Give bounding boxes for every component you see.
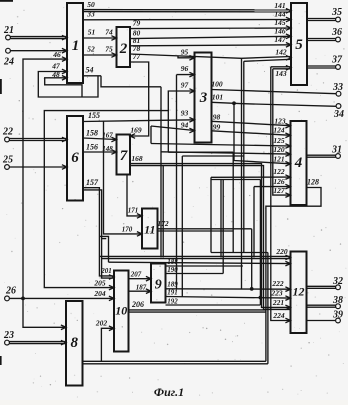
- wire 188: [166, 258, 243, 266]
- svg-text:21: 21: [3, 25, 14, 36]
- wire 192: [166, 297, 261, 305]
- svg-text:158: 158: [86, 129, 98, 138]
- block 7: [117, 135, 131, 175]
- svg-text:202: 202: [95, 319, 108, 328]
- wire 252 cross: [211, 252, 268, 254]
- wire 51-74: [83, 28, 117, 41]
- vertical 182: [181, 156, 183, 297]
- svg-text:22: 22: [2, 127, 13, 138]
- svg-text:207: 207: [130, 270, 142, 278]
- wire 207: [129, 270, 152, 281]
- wire chain to 205: [44, 111, 168, 290]
- block 4: [291, 121, 307, 205]
- svg-text:2: 2: [119, 41, 128, 57]
- wire 77-169: [130, 52, 149, 138]
- svg-text:124: 124: [273, 126, 285, 135]
- vertical from 54 branch: [160, 87, 162, 258]
- svg-text:204: 204: [93, 289, 106, 298]
- wire 32 output: [307, 286, 336, 288]
- block 3: [195, 53, 212, 143]
- wire 220 bus: [99, 247, 290, 260]
- wire 81-147: [130, 35, 291, 47]
- vertical bus at 163: [162, 166, 164, 258]
- vertical 251 to 222: [251, 229, 253, 290]
- svg-text:11: 11: [144, 223, 155, 237]
- wire 101 to terminal 34: [212, 93, 337, 107]
- svg-text:224: 224: [272, 311, 285, 320]
- wire 38 output: [307, 305, 336, 307]
- svg-text:31: 31: [331, 145, 342, 156]
- wire 142 vertical pair: [242, 58, 244, 289]
- wire 80-146: [130, 27, 291, 39]
- wire 26 to node: [10, 289, 115, 301]
- vertical 122 left: [210, 177, 212, 252]
- svg-text:51: 51: [88, 28, 96, 37]
- wire 48 branch: [45, 70, 82, 97]
- vertical 94-125 feed: [150, 126, 152, 144]
- wire bottom bus: [83, 361, 268, 364]
- svg-text:8: 8: [71, 335, 79, 351]
- wire 36 output: [307, 39, 336, 41]
- svg-text:Фиг.1: Фиг.1: [154, 385, 184, 399]
- svg-text:121: 121: [273, 155, 284, 164]
- svg-text:98: 98: [213, 113, 221, 122]
- svg-text:7: 7: [120, 148, 128, 164]
- svg-text:221: 221: [272, 298, 284, 307]
- svg-text:205: 205: [93, 279, 106, 288]
- svg-text:188: 188: [167, 258, 178, 266]
- svg-text:95: 95: [181, 48, 189, 57]
- node on wire 101: [232, 101, 236, 105]
- terminal 36: [331, 27, 342, 42]
- wire 94: [151, 121, 195, 133]
- svg-text:25: 25: [2, 155, 13, 166]
- svg-text:142: 142: [275, 48, 287, 57]
- wire 52-75: [83, 45, 117, 58]
- svg-text:93: 93: [181, 109, 189, 118]
- svg-text:38: 38: [332, 295, 343, 306]
- wire 46 from node 26: [23, 50, 67, 298]
- vertical 233: [232, 152, 234, 252]
- terminal 37: [331, 55, 343, 70]
- svg-text:191: 191: [167, 289, 178, 297]
- svg-text:23: 23: [3, 330, 14, 341]
- block 12: [291, 252, 307, 334]
- wire 168 bus: [130, 154, 291, 310]
- svg-text:74: 74: [105, 28, 113, 37]
- svg-text:48: 48: [51, 70, 60, 79]
- svg-text:125: 125: [273, 136, 285, 145]
- node on 223: [259, 296, 263, 300]
- wire 202: [95, 319, 114, 362]
- terminal 24: [3, 48, 14, 67]
- svg-text:26: 26: [5, 286, 16, 297]
- terminal 39: [332, 310, 343, 323]
- wire 187: [129, 283, 152, 293]
- svg-text:201: 201: [100, 267, 112, 275]
- svg-text:155: 155: [88, 111, 100, 120]
- wire 172 pair: [157, 219, 251, 231]
- svg-text:50: 50: [87, 0, 95, 9]
- svg-text:101: 101: [212, 93, 223, 102]
- wire 31 output: [307, 155, 336, 157]
- svg-text:6: 6: [71, 150, 79, 166]
- svg-text:5: 5: [295, 37, 303, 53]
- svg-text:171: 171: [128, 207, 139, 215]
- svg-text:100: 100: [211, 80, 223, 89]
- terminal 32: [332, 276, 343, 290]
- terminal 38: [332, 295, 343, 309]
- block 5: [291, 3, 307, 85]
- wire 23 input: [10, 340, 67, 345]
- wire 24 input: [11, 48, 68, 53]
- svg-text:147: 147: [274, 35, 286, 44]
- wire 37 output: [307, 66, 336, 68]
- svg-text:157: 157: [86, 178, 99, 187]
- svg-text:75: 75: [105, 45, 113, 54]
- wire 98-123: [212, 113, 291, 129]
- wire 21 input: [11, 35, 68, 40]
- block 9: [151, 264, 166, 303]
- wire 97 into block 3: [168, 81, 194, 153]
- wire 189-222: [166, 279, 291, 292]
- svg-text:168: 168: [131, 154, 143, 163]
- wire 33-144: [83, 10, 291, 22]
- terminal 23: [3, 330, 14, 345]
- svg-text:39: 39: [332, 310, 343, 321]
- svg-text:4: 4: [294, 155, 303, 171]
- svg-text:122: 122: [273, 167, 285, 176]
- svg-text:34: 34: [333, 109, 344, 120]
- wire 25 input: [10, 165, 68, 170]
- wire 54 branch down: [101, 76, 161, 87]
- wire 191-223: [166, 289, 291, 301]
- svg-text:12: 12: [293, 285, 305, 299]
- svg-text:36: 36: [331, 27, 342, 38]
- terminal 34: [333, 104, 344, 120]
- wire 142 pair into block 5: [242, 48, 292, 62]
- svg-text:222: 222: [271, 279, 284, 288]
- wire 100 to terminal 33: [211, 80, 336, 94]
- svg-text:35: 35: [331, 7, 342, 18]
- svg-text:24: 24: [3, 57, 14, 68]
- svg-text:10: 10: [115, 304, 127, 318]
- wire 96: [177, 64, 195, 77]
- vertical 143b / 127 chain: [273, 69, 291, 198]
- terminal 35: [331, 7, 342, 22]
- wire 156-148: [83, 143, 117, 155]
- svg-text:206: 206: [131, 300, 144, 309]
- block 8: [66, 301, 83, 386]
- svg-text:170: 170: [122, 226, 133, 234]
- wire 128 path: [266, 178, 321, 362]
- wire 50-141: [83, 0, 291, 13]
- wire 220 second line: [109, 261, 291, 266]
- svg-text:169: 169: [130, 126, 142, 135]
- caption: [154, 385, 184, 399]
- wire 26 branch to block 8: [23, 298, 66, 329]
- wire 39 output: [307, 320, 336, 322]
- svg-text:143: 143: [275, 69, 287, 78]
- svg-text:54: 54: [86, 66, 94, 75]
- wire 152-156 cross: [182, 155, 244, 157]
- wire 122 pair: [211, 167, 291, 180]
- svg-text:190: 190: [167, 266, 178, 274]
- vertical 143a / 224 chain: [271, 67, 291, 323]
- svg-text:77: 77: [133, 52, 141, 61]
- terminal 25: [2, 155, 13, 170]
- wire 121 feed: [234, 103, 291, 166]
- node on wire 26: [21, 297, 25, 301]
- svg-text:172: 172: [157, 219, 169, 228]
- svg-text:223: 223: [270, 289, 283, 298]
- svg-text:99: 99: [213, 123, 221, 132]
- wire 152 cross: [168, 151, 233, 153]
- wire 171: [127, 175, 142, 219]
- wire 54 loop to 47: [38, 62, 101, 98]
- wire 125: [151, 136, 291, 148]
- svg-text:46: 46: [52, 50, 61, 59]
- wire 158-167: [83, 129, 117, 142]
- wire 99-124: [212, 123, 291, 138]
- wire 95: [178, 48, 195, 61]
- svg-text:33: 33: [86, 10, 95, 19]
- svg-text:94: 94: [181, 121, 189, 130]
- wire 120 into block 4: [161, 145, 291, 156]
- svg-text:220: 220: [275, 247, 288, 256]
- wire 157 bus: [83, 178, 114, 279]
- svg-text:1: 1: [72, 38, 80, 54]
- node on 222: [250, 287, 254, 291]
- wire 143 pair: [271, 66, 291, 79]
- terminal 22: [2, 127, 13, 142]
- svg-text:52: 52: [87, 45, 95, 54]
- svg-text:156: 156: [86, 143, 98, 152]
- svg-text:33: 33: [332, 82, 343, 93]
- svg-text:123: 123: [274, 117, 286, 126]
- svg-text:96: 96: [181, 64, 189, 73]
- terminal 21: [3, 25, 14, 40]
- wire 238 pair: [99, 236, 108, 262]
- svg-text:128: 128: [307, 178, 319, 187]
- wire 170: [104, 121, 143, 236]
- svg-text:3: 3: [199, 90, 208, 106]
- edge mark left: [0, 79, 2, 94]
- svg-text:126: 126: [273, 177, 285, 186]
- corner mark top left: [0, 0, 13, 2]
- svg-text:192: 192: [167, 297, 178, 305]
- svg-text:189: 189: [167, 280, 178, 288]
- svg-text:9: 9: [155, 278, 162, 293]
- wire 79-145: [130, 18, 291, 30]
- vertical 267: [267, 253, 269, 364]
- block 2: [117, 27, 131, 67]
- edge mark bottom left: [0, 356, 2, 365]
- vertical 260: [259, 180, 261, 306]
- svg-text:79: 79: [133, 19, 141, 28]
- block 1: [67, 3, 83, 83]
- wire 78-142: [130, 44, 242, 58]
- wire 35 output: [307, 19, 336, 21]
- vertical pair 221-223: [221, 180, 223, 274]
- svg-text:37: 37: [331, 55, 343, 66]
- block 6: [67, 116, 83, 201]
- block 11: [142, 209, 158, 249]
- terminal 31: [331, 145, 342, 159]
- svg-text:32: 32: [332, 276, 343, 287]
- wire 206 bus: [129, 300, 266, 312]
- wire 126: [254, 177, 291, 257]
- vertical 96 feed: [176, 75, 178, 289]
- svg-text:97: 97: [181, 81, 189, 90]
- svg-text:187: 187: [136, 283, 147, 291]
- terminal 33 right: [332, 82, 343, 96]
- wire 190: [166, 266, 224, 274]
- block 10: [114, 271, 129, 352]
- wire 22 input: [10, 137, 68, 142]
- terminal 26: [5, 286, 16, 301]
- wire 155-93: [83, 109, 195, 123]
